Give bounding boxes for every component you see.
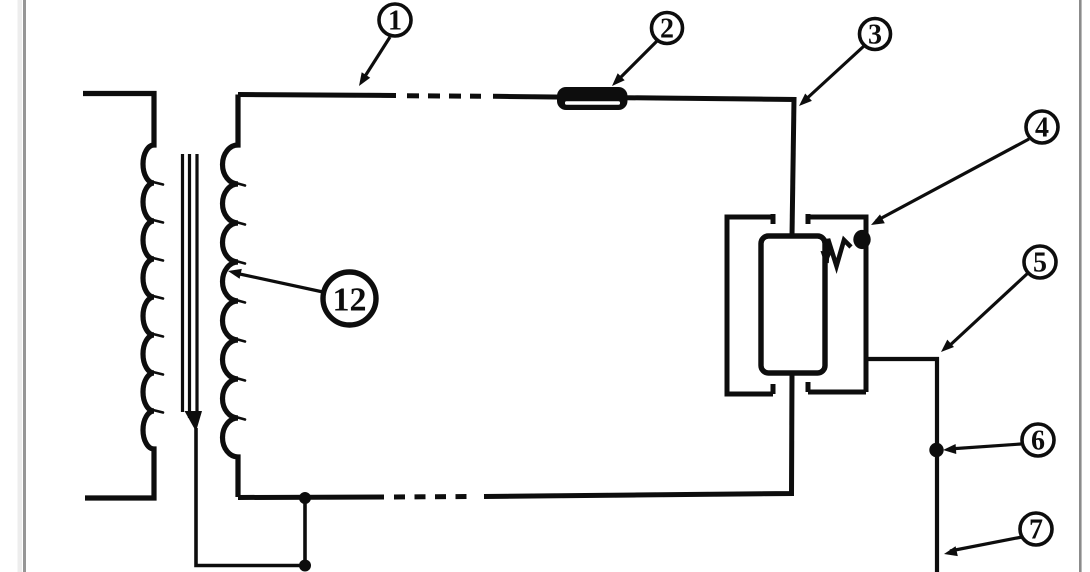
svg-text:2: 2 [660, 14, 674, 45]
svg-text:1: 1 [388, 6, 402, 37]
svg-text:3: 3 [868, 20, 882, 51]
svg-text:5: 5 [1033, 248, 1047, 279]
svg-text:4: 4 [1035, 113, 1049, 144]
svg-text:12: 12 [333, 282, 367, 319]
svg-text:6: 6 [1031, 426, 1045, 457]
svg-text:7: 7 [1029, 515, 1043, 546]
